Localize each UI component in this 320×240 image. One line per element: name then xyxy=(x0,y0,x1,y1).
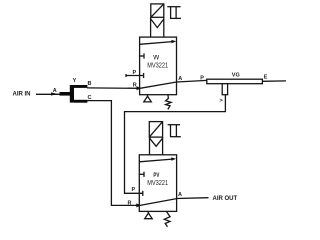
svg-text:MV3221: MV3221 xyxy=(147,178,168,187)
port stub with plug (upper left) of VV xyxy=(140,55,144,57)
svg-text:>: > xyxy=(220,98,223,104)
node A flow arrow on supply line xyxy=(51,92,57,95)
svg-text:AIR IN: AIR IN xyxy=(13,92,31,98)
wire C branch down and across to PV valve R port xyxy=(87,101,139,206)
wire PV A output to AIR OUT xyxy=(177,197,209,200)
port P plug bar of PV xyxy=(142,191,144,196)
svg-text:VG: VG xyxy=(232,72,240,78)
svg-text:A: A xyxy=(53,88,57,94)
exhaust silencer triangle below PV xyxy=(147,211,149,213)
valve VV body xyxy=(140,37,177,95)
junction arrowhead into PV R port xyxy=(136,203,141,207)
junction arrowhead into VV R port xyxy=(137,86,142,90)
svg-text:Y: Y xyxy=(73,78,77,84)
svg-text:MV3221: MV3221 xyxy=(147,60,168,69)
valve PV flow path diagonal R to A xyxy=(140,199,177,206)
regulator VG body bar xyxy=(207,79,263,84)
svg-text:AIR OUT: AIR OUT xyxy=(213,196,238,202)
svg-text:A: A xyxy=(178,76,182,82)
wire VG stem down and across to PV valve P port xyxy=(125,95,226,194)
port stub with plug (upper left) of PV xyxy=(139,173,144,175)
valve VV actuation arrow xyxy=(140,42,174,45)
pilot section with check chevron of VV xyxy=(150,17,152,37)
return spring below VV xyxy=(166,95,172,110)
electrical connector symbol of PV xyxy=(168,124,180,126)
svg-text:P: P xyxy=(132,187,136,193)
svg-text:R: R xyxy=(128,200,132,206)
svg-text:A: A xyxy=(178,192,182,198)
wire B to VV valve R port xyxy=(87,87,139,89)
electrical connector symbol of VV xyxy=(167,6,180,8)
wire VV A output to VG P xyxy=(177,80,208,82)
valve PV body xyxy=(139,155,176,212)
svg-text:E: E xyxy=(264,74,268,80)
valve PV actuation arrow xyxy=(139,159,174,162)
svg-text:P: P xyxy=(200,76,204,82)
exhaust silencer triangle below VV xyxy=(147,95,149,97)
pilot section with check chevron of PV xyxy=(149,137,151,155)
solenoid coil of PV xyxy=(149,122,162,138)
svg-text:R: R xyxy=(133,82,137,88)
regulator VG stem xyxy=(222,84,227,95)
fitting Y branch tee (thick) xyxy=(60,85,88,103)
solenoid coil of VV xyxy=(151,4,164,17)
wire VG E output line xyxy=(262,80,286,82)
valve VV flow path diagonal R to A xyxy=(140,82,177,88)
wire AIR IN supply line xyxy=(36,93,60,95)
svg-text:B: B xyxy=(88,81,92,87)
return spring below PV xyxy=(164,212,170,227)
port P pilot line with plug of VV xyxy=(126,75,144,77)
